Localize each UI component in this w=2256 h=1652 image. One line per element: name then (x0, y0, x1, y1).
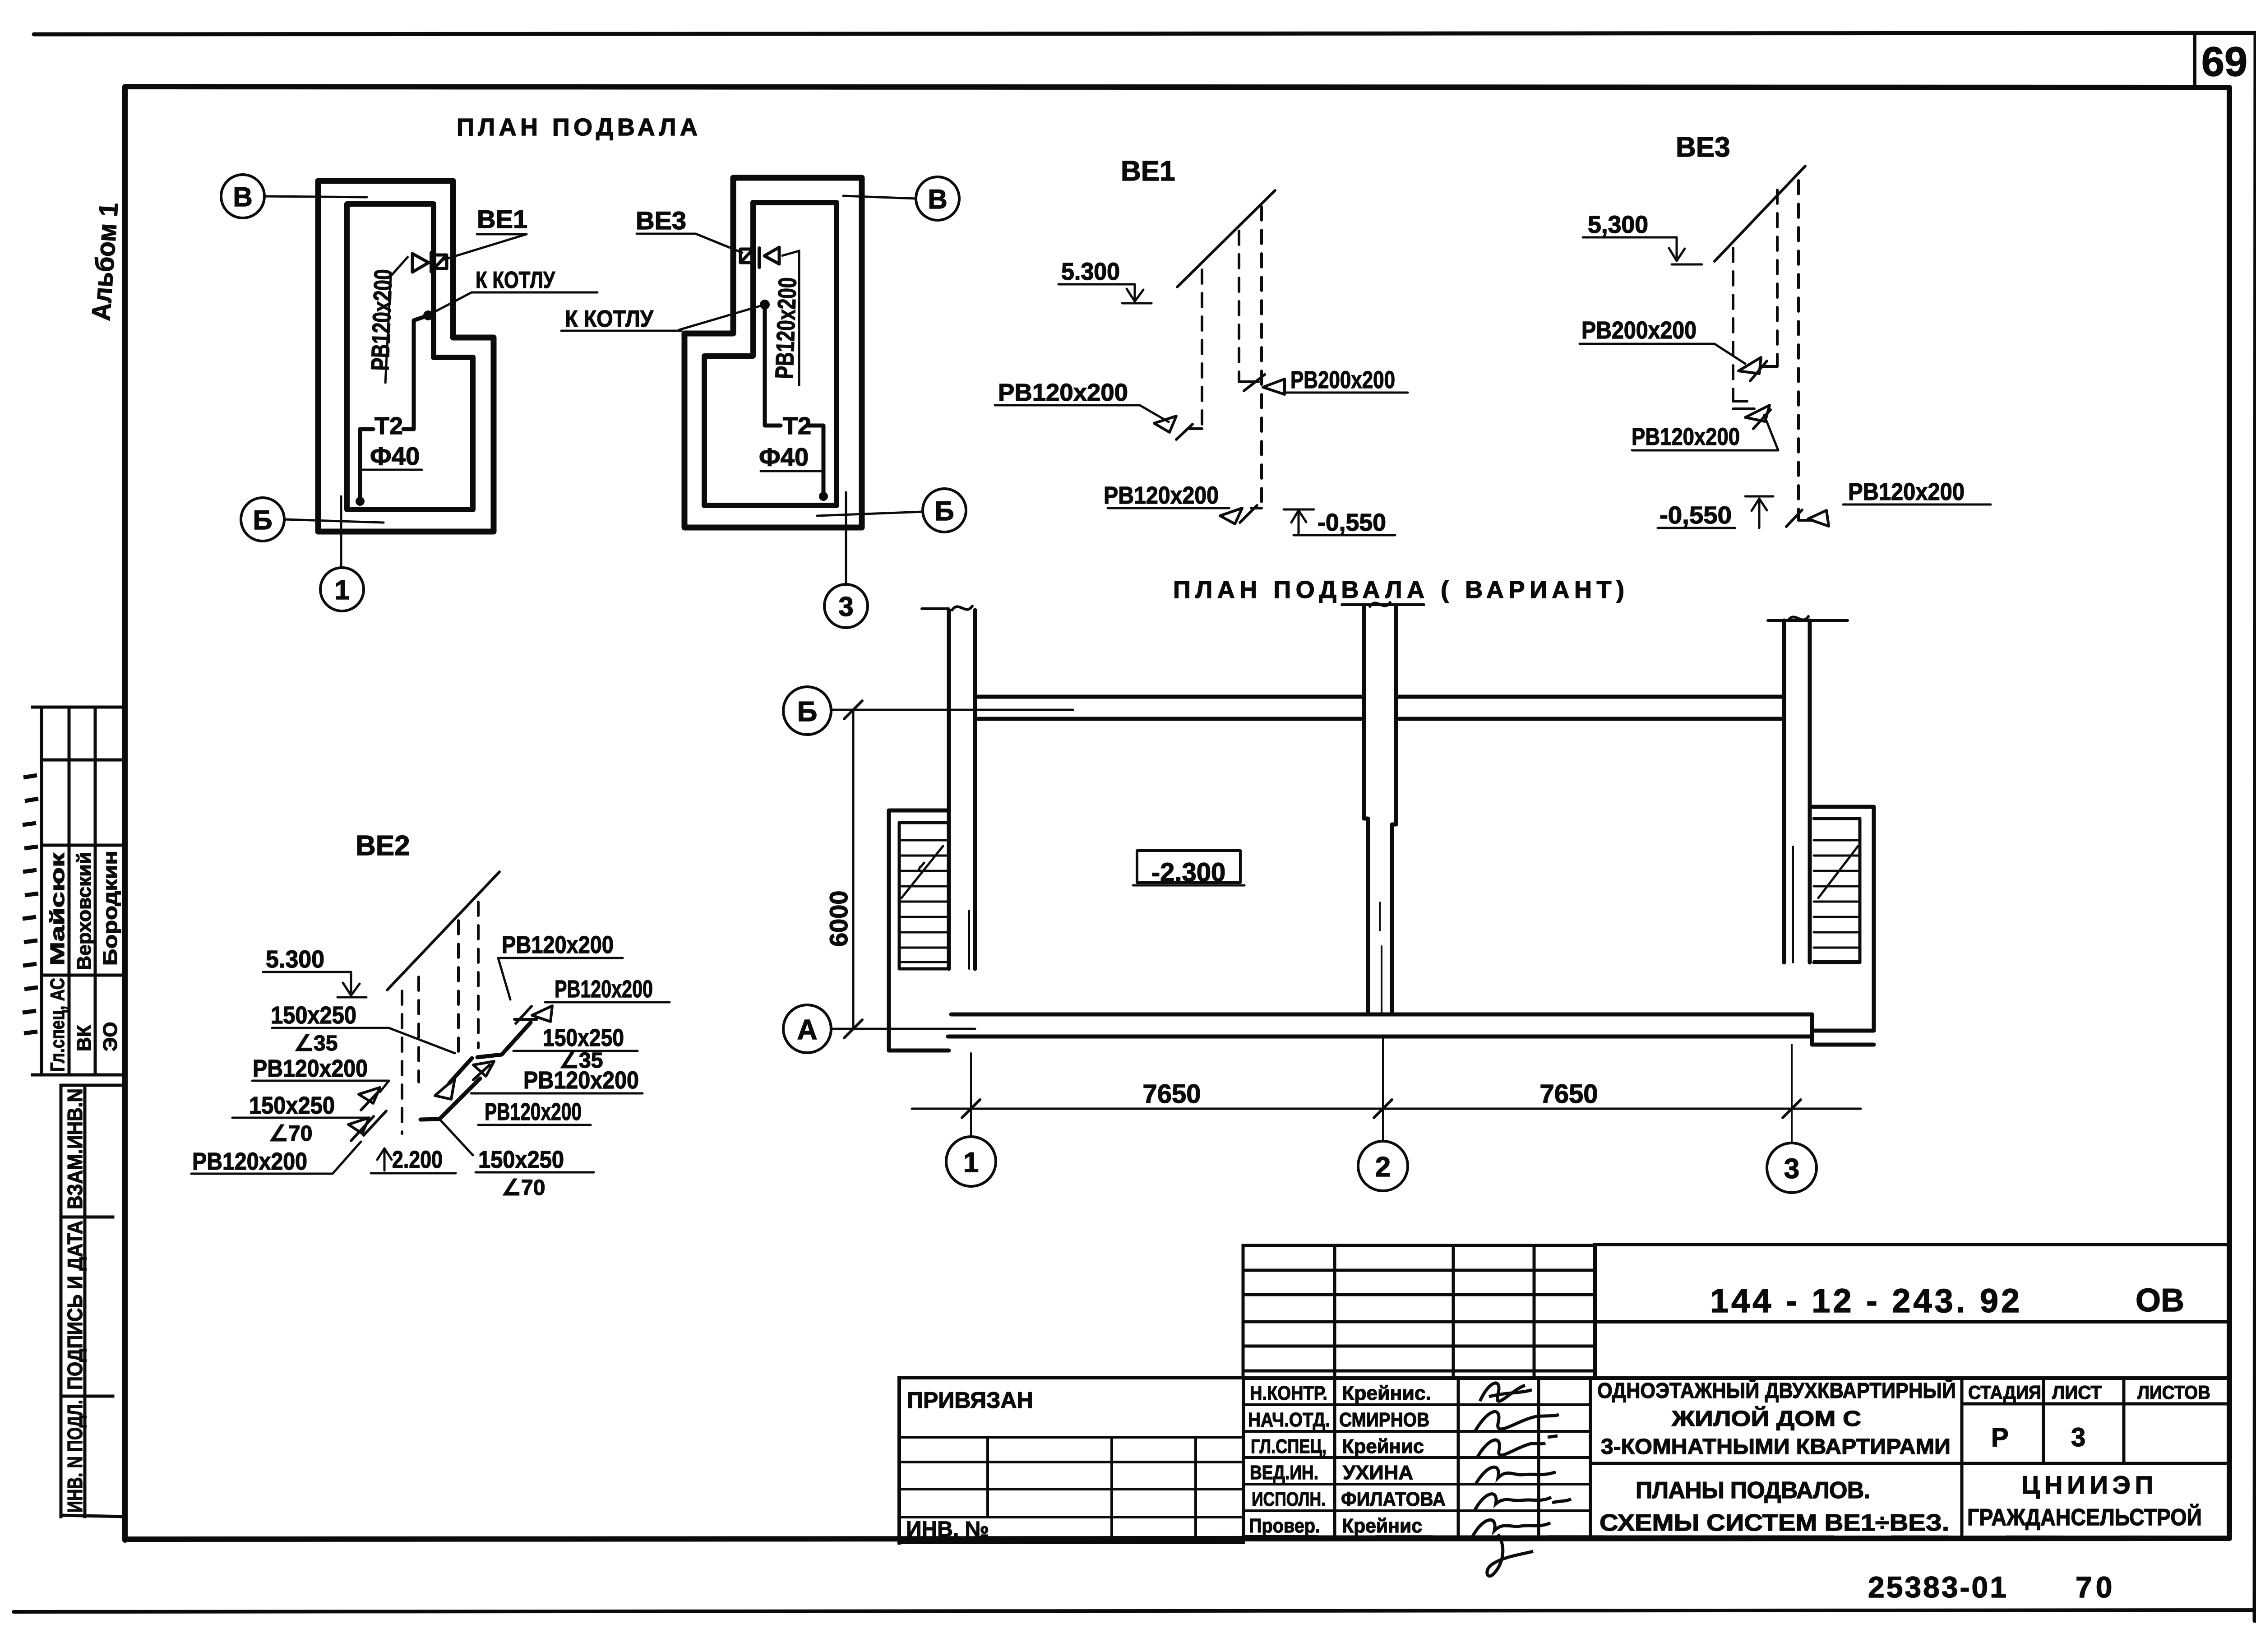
svg-text:ИСПОЛН.: ИСПОЛН. (1252, 1488, 1326, 1510)
svg-text:7650: 7650 (1142, 1079, 1201, 1109)
svg-text:144 - 12 - 243. 92: 144 - 12 - 243. 92 (1710, 1282, 2022, 1319)
svg-text:РВ120х200: РВ120х200 (1632, 423, 1740, 450)
sidebar rotated labels (46, 851, 121, 1513)
fan duct symbol BE1 (412, 254, 429, 272)
axis circle A big (783, 1005, 831, 1053)
axis circle Б big (783, 687, 831, 735)
VE2 roof diagonal (387, 872, 499, 990)
pipe junction dot (423, 310, 433, 320)
upper small table (1243, 1245, 1534, 1378)
svg-text:2: 2 (1375, 1152, 1391, 1183)
label underlines (left column) (272, 1027, 389, 1029)
150x250 L35 duct right (solid diagonal) (477, 1023, 531, 1057)
outer top scan line (34, 33, 2256, 34)
svg-text:РВ200х200: РВ200х200 (1290, 366, 1395, 393)
axis circle Б2 (923, 489, 966, 532)
svg-text:РВ120х200: РВ120х200 (770, 277, 802, 379)
svg-text:ОДНОЭТАЖНЫЙ ДВУХКВАРТИРНЫЙ: ОДНОЭТАЖНЫЙ ДВУХКВАРТИРНЫЙ (1597, 1378, 1956, 1403)
BE3 label leader (637, 234, 742, 253)
svg-text:РВ120х200: РВ120х200 (998, 379, 1128, 406)
right stairwell enclosure (1812, 807, 1874, 1031)
svg-text:ВЕ2: ВЕ2 (356, 830, 410, 861)
svg-text:150х250: 150х250 (543, 1024, 624, 1051)
svg-text:НАЧ.ОТД.: НАЧ.ОТД. (1248, 1409, 1330, 1431)
axis circle 2 big (1358, 1141, 1408, 1191)
K KOTLU leader (430, 292, 597, 315)
svg-text:3: 3 (838, 592, 853, 622)
middle column (axis 2) (1364, 606, 1396, 824)
svg-text:ПЛАНЫ ПОДВАЛОВ.: ПЛАНЫ ПОДВАЛОВ. (1636, 1477, 1870, 1504)
VE1 duct riser dashed 2 (1238, 231, 1240, 382)
pipe junction dot 2 (760, 300, 770, 310)
axis circle 1 big (946, 1137, 996, 1186)
PB120x200 arrow onto duct (473, 1061, 494, 1076)
svg-text:5.300: 5.300 (266, 946, 324, 973)
svg-text:5,300: 5,300 (1588, 211, 1648, 238)
svg-text:РВ120х200: РВ120х200 (1104, 482, 1219, 509)
axis B leader (264, 196, 367, 197)
axis circle B2 (916, 177, 959, 220)
svg-text:25383-01: 25383-01 (1868, 1570, 2008, 1604)
svg-text:Провер.: Провер. (1249, 1515, 1320, 1537)
svg-text:К КОТЛУ: К КОТЛУ (476, 267, 555, 293)
VE1 roof diagonal (1177, 190, 1275, 287)
axis 3 leader (845, 492, 847, 584)
page number box (2193, 34, 2196, 88)
middle wall centerline dash (1379, 902, 1381, 930)
svg-text:3: 3 (2071, 1423, 2085, 1452)
svg-text:ВК: ВК (73, 1025, 95, 1051)
VE2 dashed riser 1 (401, 991, 403, 1134)
svg-text:РВ200х200: РВ200х200 (1581, 317, 1697, 344)
PB200x200 label leader+arrow (1284, 392, 1408, 394)
main signature table (1244, 1376, 2229, 1380)
svg-text:РВ120х200: РВ120х200 (1848, 478, 1965, 505)
f40 underline 2 (761, 470, 822, 472)
svg-text:5.300: 5.300 (1061, 258, 1120, 285)
svg-text:А: А (797, 1014, 818, 1046)
f40 underline (360, 469, 422, 471)
svg-text:70: 70 (2076, 1570, 2116, 1604)
PB120x200 bottom right label+arrow (1843, 504, 1991, 506)
svg-text:ПЛАН ПОДВАЛА ( ВАРИАНТ): ПЛАН ПОДВАЛА ( ВАРИАНТ) (1173, 576, 1624, 603)
axis 2 leader (1382, 946, 1383, 1141)
left PB120x200 arrow at riser1 (359, 1087, 380, 1103)
svg-text:ИНВ. №: ИНВ. № (906, 1518, 989, 1541)
left stair diagonal (901, 846, 943, 898)
svg-text:∠35: ∠35 (294, 1032, 337, 1055)
svg-text:Ф40: Ф40 (370, 442, 420, 470)
svg-text:150х250: 150х250 (249, 1092, 335, 1119)
svg-text:Р: Р (1991, 1423, 2009, 1452)
svg-text:Т2: Т2 (374, 412, 403, 440)
svg-text:-2.300: -2.300 (1151, 858, 1225, 887)
VE2 elevation 5.300 mark (263, 972, 351, 992)
VE1 duct riser dashed 3 (1260, 207, 1263, 508)
svg-text:ПРИВЯЗАН: ПРИВЯЗАН (907, 1388, 1033, 1413)
svg-text:ПОДПИСЬ И ДАТА: ПОДПИСЬ И ДАТА (63, 1221, 87, 1390)
axis 3 leader (1792, 847, 1793, 1142)
axis Б leader (284, 519, 384, 523)
axis circle 3 (824, 584, 868, 628)
axis Б line (831, 709, 1073, 711)
plan2 inner wall outline (704, 203, 837, 505)
signatures (cursive scribbles) (1472, 1383, 1571, 1576)
title cell divider (1960, 1462, 1964, 1465)
heating pipe T2 (403, 315, 428, 429)
sidebar upper table (32, 707, 125, 1075)
middle wall below column (1364, 819, 1396, 1014)
outer right scan line (2255, 33, 2256, 1621)
VE1 duct riser dashed 1 (1201, 270, 1203, 429)
svg-text:69: 69 (2201, 39, 2247, 85)
svg-text:РВ120х200: РВ120х200 (523, 1067, 639, 1094)
fan duct symbol BE3 (740, 249, 753, 263)
svg-text:1: 1 (963, 1147, 979, 1178)
VE3 duct riser dashed 1 (1732, 248, 1734, 401)
vertical dimension 6000 line (852, 710, 855, 1029)
VE3 duct riser dashed 2 (1776, 190, 1779, 366)
right stair diagonal (1818, 846, 1858, 898)
bottom wall (951, 1013, 1812, 1017)
svg-text:7650: 7650 (1539, 1079, 1598, 1109)
svg-text:РВ120х200: РВ120х200 (253, 1055, 368, 1082)
svg-text:Б: Б (253, 505, 272, 535)
svg-text:УХИНА: УХИНА (1343, 1462, 1413, 1484)
document number box (1595, 1245, 2229, 1378)
svg-text:ГЛ.СПЕЦ,: ГЛ.СПЕЦ, (1251, 1435, 1327, 1458)
svg-text:ВЕД.ИН.: ВЕД.ИН. (1250, 1462, 1318, 1484)
left column (axis 1 wall) (949, 610, 975, 969)
svg-text:Т2: Т2 (783, 412, 811, 440)
left 150x250 L70 arrowheads (348, 1118, 369, 1134)
svg-text:Б: Б (797, 696, 818, 727)
sidebar lower table (61, 1085, 125, 1517)
svg-text:-0,550: -0,550 (1318, 509, 1386, 536)
left stair treads (899, 840, 947, 962)
svg-text:Крейнис: Крейнис (1342, 1515, 1422, 1537)
heating pipe T2 (plan2) (765, 305, 781, 426)
svg-text:В: В (928, 184, 947, 214)
svg-text:РВ120х200: РВ120х200 (365, 268, 398, 371)
svg-text:3-КОМНАТНЫМИ КВАРТИРАМИ: 3-КОМНАТНЫМИ КВАРТИРАМИ (1601, 1435, 1951, 1459)
break mark middle column (1370, 602, 1390, 606)
svg-text:ВЕ1: ВЕ1 (477, 205, 527, 233)
svg-text:СТАДИЯ: СТАДИЯ (1968, 1382, 2041, 1403)
left stairwell enclosure (889, 810, 949, 1050)
svg-text:СМИРНОВ: СМИРНОВ (1339, 1409, 1429, 1431)
top wall left section (975, 697, 1364, 719)
svg-text:Гл.спец, АС: Гл.спец, АС (46, 978, 69, 1072)
svg-text:РВ120х200: РВ120х200 (502, 931, 614, 958)
right column (axis 3 wall) (1784, 620, 1810, 963)
PB120x200 left label leader+arrow (995, 405, 1169, 422)
PB200x200 label leader+arrow (1580, 344, 1745, 364)
placeholder groups to be filled (221, 175, 597, 611)
svg-text:ЦНИИЭП: ЦНИИЭП (2021, 1471, 2158, 1499)
svg-text:Б: Б (934, 496, 954, 526)
outer bottom scan line (14, 1610, 2256, 1612)
svg-text:В: В (233, 182, 252, 212)
VE1 elevation 5.300 mark (1059, 284, 1135, 299)
svg-text:ЛИСТОВ: ЛИСТОВ (2137, 1382, 2210, 1403)
svg-text:150х250: 150х250 (271, 1002, 356, 1029)
svg-text:ВЕ1: ВЕ1 (1121, 156, 1175, 187)
axis circle 3 big (1767, 1143, 1817, 1193)
K KOTLU 2 leader (561, 305, 765, 331)
svg-text:ЭО: ЭО (99, 1022, 121, 1051)
VE2 dashed riser 2 (417, 977, 420, 1082)
PB120x200 mid label leader+arrow (1632, 415, 1778, 450)
2.200 elevation mark (384, 1148, 386, 1171)
bottom dimension line (912, 1108, 1861, 1110)
150x250 L35 duct left (solid diagonal) (449, 1058, 472, 1083)
svg-text:ВЕ3: ВЕ3 (1676, 132, 1730, 163)
VE2 dashed riser 4 (477, 902, 480, 1048)
axis 1 centerline through stair (969, 911, 971, 1136)
axis B2 leader (843, 196, 916, 199)
svg-text:1: 1 (334, 575, 349, 605)
stadiya header (1962, 1378, 2124, 1537)
left thin leader from 150x250 left label (389, 1028, 455, 1053)
svg-text:3: 3 (1784, 1153, 1799, 1185)
label underlines (right column) (498, 958, 623, 1000)
svg-text:∠70: ∠70 (502, 1176, 545, 1200)
axis circle B (221, 175, 264, 218)
right stair treads (1814, 840, 1860, 961)
axis A line (831, 1028, 975, 1030)
svg-text:-0,550: -0,550 (1660, 502, 1732, 529)
VE3 elevation 5,300 mark (1583, 237, 1677, 257)
svg-text:К КОТЛУ: К КОТЛУ (565, 306, 654, 332)
top wall right section (1396, 697, 1784, 719)
axis 1 leader (340, 496, 342, 568)
svg-text:Ф40: Ф40 (759, 443, 809, 471)
svg-text:∠70: ∠70 (269, 1122, 312, 1146)
svg-text:ГРАЖДАНСЕЛЬСТРОЙ: ГРАЖДАНСЕЛЬСТРОЙ (1967, 1504, 2202, 1531)
VE2 dashed riser 3 (457, 921, 460, 1056)
svg-text:СХЕМЫ СИСТЕМ ВЕ1÷ВЕЗ.: СХЕМЫ СИСТЕМ ВЕ1÷ВЕЗ. (1600, 1510, 1949, 1536)
BE1 label leader (441, 234, 527, 260)
axis circle Б (241, 498, 284, 541)
plan2 outer wall outline (684, 178, 862, 528)
svg-text:6000: 6000 (824, 890, 853, 947)
svg-text:Н.КОНТР.: Н.КОНТР. (1250, 1382, 1327, 1404)
svg-text:ПЛАН ПОДВАЛА: ПЛАН ПОДВАЛА (457, 114, 698, 141)
svg-text:Майсюк: Майсюк (46, 852, 69, 966)
privyazan table (899, 1378, 1244, 1543)
svg-text:150х250: 150х250 (478, 1146, 564, 1173)
break mark right column (1788, 616, 1808, 620)
PB120x200 bottom label leader+arrow (1108, 507, 1229, 509)
svg-text:Крейнис: Крейнис (1342, 1435, 1424, 1458)
svg-text:ФИЛАТОВА: ФИЛАТОВА (1341, 1488, 1446, 1510)
svg-text:РВ120х200: РВ120х200 (485, 1098, 582, 1125)
svg-text:Крейнис.: Крейнис. (1342, 1382, 1431, 1404)
svg-text:ОВ: ОВ (2136, 1282, 2184, 1319)
svg-text:Верховский: Верховский (73, 852, 95, 970)
-0,550 elevation mark (1294, 534, 1395, 537)
VE3 duct riser dashed 3 (1797, 180, 1800, 520)
-0,550 elevation mark (1658, 527, 1735, 529)
svg-text:РВ120х200: РВ120х200 (192, 1148, 307, 1175)
svg-text:ЖИЛОЙ ДОМ С: ЖИЛОЙ ДОМ С (1671, 1406, 1861, 1431)
VE3 roof diagonal (1715, 166, 1805, 261)
svg-text:2.200: 2.200 (392, 1146, 443, 1173)
plan1 inner wall outline (347, 204, 473, 509)
svg-text:РВ120х200: РВ120х200 (555, 976, 653, 1003)
svg-text:ВЗАМ.ИНВ.N: ВЗАМ.ИНВ.N (63, 1088, 87, 1209)
plan1 outer wall outline (318, 181, 494, 532)
svg-text:ЛИСТ: ЛИСТ (2052, 1382, 2102, 1403)
svg-text:ВЕ3: ВЕ3 (636, 206, 686, 235)
axis circle 1 (320, 568, 364, 611)
-2.300 level box (1137, 851, 1240, 883)
left PB120x200 (2) leader (333, 1142, 361, 1174)
break mark left column (952, 606, 972, 610)
svg-text:ИНВ. N ПОДЛ.: ИНВ. N ПОДЛ. (63, 1400, 87, 1513)
axis Б2 leader (817, 512, 923, 516)
cut-off text marks at scan left edge (23, 775, 38, 1033)
svg-text:Бородкин: Бородкин (99, 851, 121, 966)
lower duct diagonal to 150x250 L70 (421, 1078, 480, 1120)
